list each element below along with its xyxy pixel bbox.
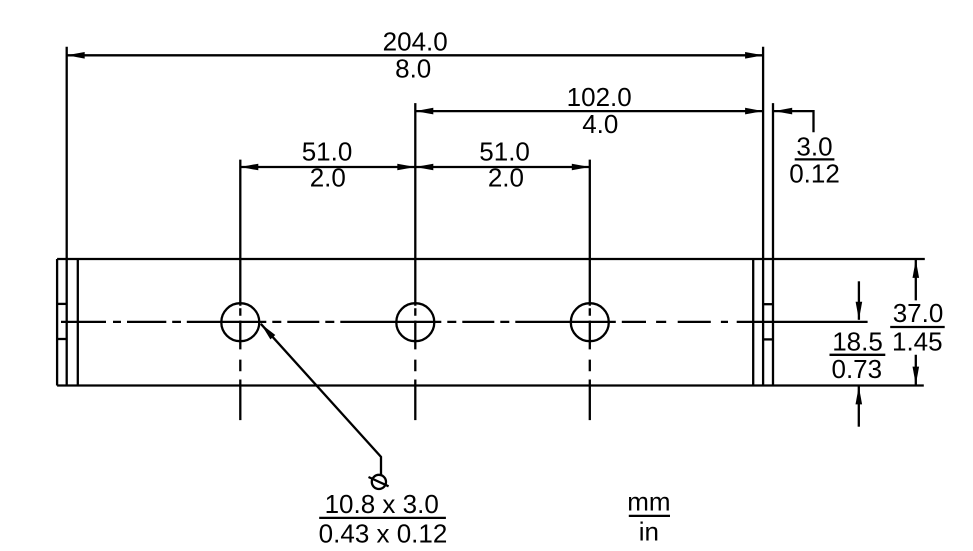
svg-text:mm: mm — [627, 487, 670, 517]
svg-text:0.73: 0.73 — [831, 354, 882, 384]
svg-text:37.0: 37.0 — [893, 298, 944, 328]
svg-text:0.43 x 0.12: 0.43 x 0.12 — [319, 519, 448, 549]
svg-text:4.0: 4.0 — [582, 109, 618, 139]
svg-text:2.0: 2.0 — [310, 163, 346, 193]
svg-text:18.5: 18.5 — [832, 327, 883, 357]
svg-text:1.45: 1.45 — [892, 327, 943, 357]
svg-text:8.0: 8.0 — [395, 54, 431, 84]
svg-text:10.8 x 3.0: 10.8 x 3.0 — [325, 489, 439, 519]
svg-text:in: in — [639, 516, 659, 546]
svg-text:102.0: 102.0 — [567, 82, 632, 112]
svg-text:2.0: 2.0 — [488, 163, 524, 193]
svg-text:204.0: 204.0 — [383, 26, 448, 56]
svg-text:0.12: 0.12 — [789, 158, 840, 188]
svg-text:3.0: 3.0 — [796, 131, 832, 161]
